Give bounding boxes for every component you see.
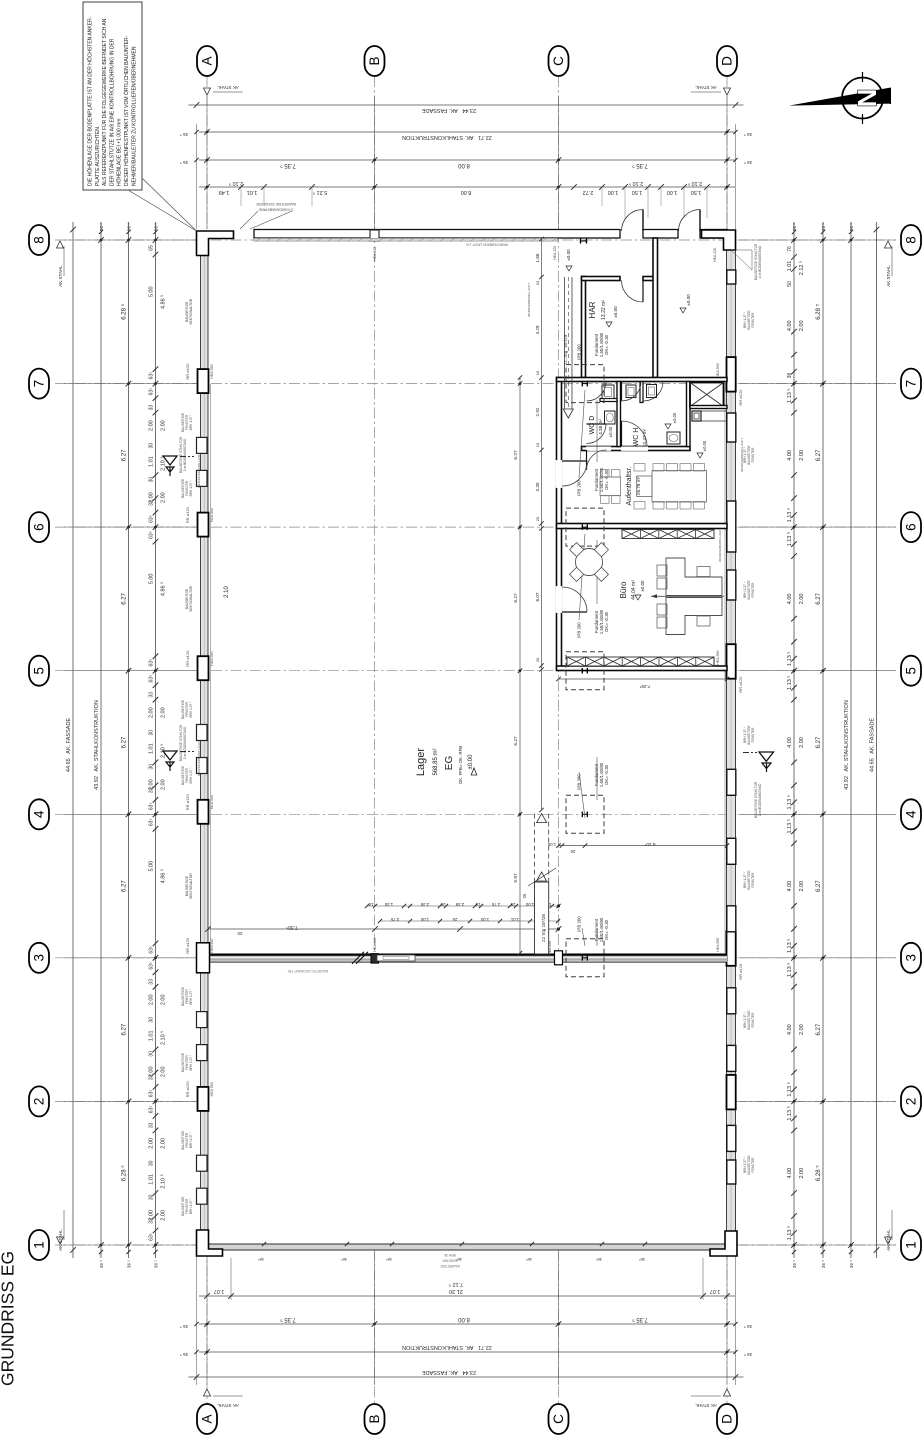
svg-text:22.71 AK. STAHLKONSTRUKTION: 22.71 AK. STAHLKONSTRUKTION xyxy=(402,1344,492,1350)
svg-text:6.27: 6.27 xyxy=(816,449,822,461)
left wall inner leaf line xyxy=(210,384,212,953)
svg-text:2-m BODENABSTAND: 2-m BODENABSTAND xyxy=(183,726,187,759)
svg-text:HEA 550: HEA 550 xyxy=(210,364,214,378)
svg-text:FENSTER: FENSTER xyxy=(751,1157,755,1173)
svg-text:63⁵: 63⁵ xyxy=(149,515,155,523)
svg-text:4.86 ⁵: 4.86 ⁵ xyxy=(160,582,167,597)
svg-text:±0.00: ±0.00 xyxy=(608,426,613,437)
svg-text:4.00: 4.00 xyxy=(787,320,793,331)
svg-text:N: N xyxy=(852,89,882,108)
svg-text:2.00: 2.00 xyxy=(799,881,805,892)
svg-text:33: 33 xyxy=(149,405,155,411)
interior dim line 6.10 y845 xyxy=(559,845,728,847)
svg-text:4.29: 4.29 xyxy=(535,325,540,334)
svg-text:36 ⁵: 36 ⁵ xyxy=(744,160,752,165)
right dim extension lines xyxy=(740,239,896,241)
svg-text:2.00: 2.00 xyxy=(799,594,805,605)
svg-text:2.10 ⁵: 2.10 ⁵ xyxy=(160,1174,167,1189)
svg-text:1.13 ⁵: 1.13 ⁵ xyxy=(786,388,793,403)
svg-text:1.01: 1.01 xyxy=(787,261,793,272)
svg-text:2.75: 2.75 xyxy=(390,917,399,922)
svg-text:36 ⁵: 36 ⁵ xyxy=(744,1324,752,1329)
axis bubble 4 left xyxy=(29,799,49,829)
right wall inner leaf line xyxy=(724,384,726,953)
Buero desk chairs xyxy=(657,565,667,576)
svg-text:Aufenthaltsr.: Aufenthaltsr. xyxy=(626,466,633,505)
door arc Aufenthalt xyxy=(562,460,587,462)
svg-text:BRH 1.37 ⁵: BRH 1.37 ⁵ xyxy=(189,1054,193,1071)
bottom dim line 22.71 AK STAHLKONSTRUKTION xyxy=(199,1351,735,1353)
AK.STAHL flag left-bottom xyxy=(57,1237,64,1244)
grid axis 8 (horizontal dash-dot) xyxy=(55,239,896,241)
svg-text:2-m BODENABSTAND: 2-m BODENABSTAND xyxy=(183,438,187,471)
svg-text:AK STAHL: AK STAHL xyxy=(695,1403,717,1408)
Aufenthalt small table with chairs xyxy=(600,477,621,496)
axis bubble 8 left xyxy=(29,225,49,255)
Buero desk group lower xyxy=(666,598,722,635)
svg-text:GRUNDRISS EG: GRUNDRISS EG xyxy=(0,1251,18,1386)
svg-text:1.01: 1.01 xyxy=(510,917,519,922)
utility sink below shaft xyxy=(692,411,701,421)
svg-text:RR ø120: RR ø120 xyxy=(185,1081,190,1098)
svg-text:4.00: 4.00 xyxy=(787,1168,793,1179)
svg-text:BRH 1.37 ⁵: BRH 1.37 ⁵ xyxy=(189,414,193,431)
door arc WC H cabin1 xyxy=(621,382,623,402)
top dim line 4 fine xyxy=(199,186,735,188)
svg-text:30: 30 xyxy=(149,1017,155,1023)
svg-text:1.01: 1.01 xyxy=(149,1030,155,1041)
AK STAHL flag bottom-left xyxy=(204,1389,211,1396)
axis bubble A bottom xyxy=(197,1404,217,1434)
svg-text:OK= -0.30: OK= -0.30 xyxy=(604,919,609,940)
corner column top-right xyxy=(702,230,736,250)
door arc Buero xyxy=(562,611,587,613)
svg-text:HEA 220: HEA 220 xyxy=(713,248,717,262)
wall axis6 Aufenthalt/Buero xyxy=(557,524,728,529)
axis bubble 5 left xyxy=(29,656,49,686)
svg-text:SEKTIONALTOR: SEKTIONALTOR xyxy=(189,298,193,324)
svg-text:20: 20 xyxy=(237,931,243,936)
svg-text:±0.00: ±0.00 xyxy=(613,306,618,318)
svg-text:23.44 AK. FASSADE: 23.44 AK. FASSADE xyxy=(422,107,476,113)
svg-text:63⁵: 63⁵ xyxy=(149,388,155,396)
AK STAHL flag bottom-right xyxy=(724,1389,731,1396)
shaft box with X xyxy=(690,383,724,407)
svg-text:43.92 AK. STAHLKONSTRUKTION: 43.92 AK. STAHLKONSTRUKTION xyxy=(844,700,850,790)
svg-text:4.38 m²: 4.38 m² xyxy=(598,419,603,435)
svg-text:1.01: 1.01 xyxy=(149,743,155,754)
svg-text:HEA 550: HEA 550 xyxy=(716,651,720,665)
svg-text:36 ⁵: 36 ⁵ xyxy=(180,132,188,137)
svg-text:SEKTIONALTOR: SEKTIONALTOR xyxy=(189,585,193,611)
note box leader line xyxy=(142,178,197,231)
svg-text:8.00: 8.00 xyxy=(458,162,470,168)
svg-text:EG: EG xyxy=(444,756,455,771)
svg-text:4.00: 4.00 xyxy=(787,881,793,892)
svg-text:FENSTER: FENSTER xyxy=(751,1012,755,1028)
door arc HAR xyxy=(642,281,644,303)
door arc WC D lower xyxy=(587,423,607,425)
svg-text:1.49: 1.49 xyxy=(219,189,230,195)
svg-text:FENSTER: FENSTER xyxy=(751,582,755,598)
right wall windows xyxy=(727,270,736,284)
grid axis 5 (horizontal dash-dot) xyxy=(55,670,896,672)
svg-text:1.00: 1.00 xyxy=(480,917,489,922)
stair flight lower (22 Stg) to wall 3 xyxy=(534,814,536,882)
grid axis 1 (horizontal dash-dot) xyxy=(55,1244,896,1246)
svg-text:30: 30 xyxy=(149,730,155,736)
svg-text:2-m BODENABSTAND: 2-m BODENABSTAND xyxy=(258,208,293,212)
top dim line 22.71 AK STAHLKONSTRUKTION xyxy=(199,131,735,133)
foundation squares at C+26 rows 7,6,5,4,3 xyxy=(566,365,604,403)
svg-text:2.00: 2.00 xyxy=(149,1138,155,1149)
WC D washbasin xyxy=(602,385,614,399)
svg-text:2.00: 2.00 xyxy=(161,707,167,718)
svg-text:1.00: 1.00 xyxy=(525,902,534,907)
WC bottom wall y447 xyxy=(582,447,691,451)
svg-text:HAR: HAR xyxy=(588,301,597,318)
svg-text:C: C xyxy=(551,1414,566,1424)
svg-text:36 ⁵: 36 ⁵ xyxy=(180,1324,188,1329)
svg-text:2.72: 2.72 xyxy=(583,189,594,195)
svg-text:BRH 1.37 ⁵: BRH 1.37 ⁵ xyxy=(189,1198,193,1215)
svg-text:WANDVERBAND-LÄUFT: WANDVERBAND-LÄUFT xyxy=(718,528,722,562)
svg-text:WANDVERBAND LÄUFT 2-m: WANDVERBAND LÄUFT 2-m xyxy=(465,243,508,247)
top dim extension lines xyxy=(206,96,208,229)
corner column bottom-right xyxy=(710,1231,737,1256)
svg-text:RR ø120: RR ø120 xyxy=(185,650,190,667)
WC H washbasin 1 xyxy=(626,385,636,398)
svg-text:2.38: 2.38 xyxy=(420,902,429,907)
svg-text:6.10⁷: 6.10⁷ xyxy=(644,841,655,847)
grid axis A (vertical dash-dot) xyxy=(206,76,208,1404)
svg-text:1.01: 1.01 xyxy=(149,1174,155,1185)
svg-text:63⁵: 63⁵ xyxy=(149,818,155,826)
svg-text:Lager: Lager xyxy=(415,748,427,776)
office wall HAR left x581 xyxy=(582,277,586,378)
corner column bottom-left xyxy=(197,1230,223,1256)
svg-text:6.27: 6.27 xyxy=(122,880,128,892)
svg-text:8.00: 8.00 xyxy=(461,189,472,195)
WC H washbasin 2 xyxy=(647,385,657,398)
svg-text:D: D xyxy=(720,1414,735,1424)
svg-text:ALS REFERENZPUNKT FÜR DIE FOLG: ALS REFERENZPUNKT FÜR DIE FOLGEGEWERKE B… xyxy=(101,18,108,186)
svg-text:1.13 ⁵: 1.13 ⁵ xyxy=(786,675,793,690)
svg-text:BRANDVERBAND-LÄUFT: BRANDVERBAND-LÄUFT xyxy=(197,452,201,488)
axis bubble B top xyxy=(365,46,385,76)
svg-text:1: 1 xyxy=(904,1241,919,1249)
datum level symbol left bay 7-6 xyxy=(163,456,177,465)
svg-text:3.30: 3.30 xyxy=(535,482,540,491)
svg-text:DIE HÖHENLAGE DER BODENPLATTE: DIE HÖHENLAGE DER BODENPLATTE IST AN DER… xyxy=(87,16,94,186)
svg-text:36 ⁵: 36 ⁵ xyxy=(127,1260,132,1268)
svg-text:1.01: 1.01 xyxy=(149,456,155,467)
svg-text:63⁵: 63⁵ xyxy=(149,1233,155,1241)
AK.STAHL flag right-top xyxy=(885,241,892,248)
svg-text:±0.00: ±0.00 xyxy=(672,412,677,423)
axis bubble C top xyxy=(549,46,569,76)
svg-text:OK= -0.30: OK= -0.30 xyxy=(604,469,609,490)
grid axis 4 (horizontal dash-dot) xyxy=(55,813,896,815)
svg-text:2.75: 2.75 xyxy=(491,902,500,907)
axis bubble D top xyxy=(717,46,737,76)
svg-text:±0.00: ±0.00 xyxy=(686,294,691,306)
bottom dim extension lines xyxy=(196,1252,198,1385)
door arc WC D top xyxy=(587,381,607,383)
svg-text:6.27: 6.27 xyxy=(816,880,822,892)
wall 3 column at C xyxy=(555,951,563,965)
svg-text:AK.STAHL: AK.STAHL xyxy=(886,265,891,287)
svg-text:6.28 ⁵: 6.28 ⁵ xyxy=(121,303,128,319)
svg-text:HEA 220: HEA 220 xyxy=(553,246,557,260)
svg-text:20: 20 xyxy=(570,849,575,854)
svg-text:OK= -0.30: OK= -0.30 xyxy=(604,611,609,632)
svg-text:2.39: 2.39 xyxy=(455,902,464,907)
svg-text:7.25⁵: 7.25⁵ xyxy=(639,684,650,689)
svg-text:65: 65 xyxy=(149,245,155,251)
svg-text:25: 25 xyxy=(510,902,515,907)
wall 3 break symbol xyxy=(352,952,364,964)
axis bubble 1 left xyxy=(29,1230,49,1260)
svg-text:1.13 ⁵: 1.13 ⁵ xyxy=(786,1106,793,1121)
svg-text:HEA 550: HEA 550 xyxy=(716,363,720,377)
svg-text:36 ⁵: 36 ⁵ xyxy=(744,1352,752,1357)
svg-text:2.00: 2.00 xyxy=(161,1138,167,1149)
svg-text:36 ⁵: 36 ⁵ xyxy=(744,132,752,137)
left dim line 4 fine chain xyxy=(155,222,157,1258)
right fine dim chain xyxy=(793,222,795,1258)
AK.STAHL flag right-bottom xyxy=(885,1237,892,1244)
svg-text:BRH 1.37 ⁵: BRH 1.37 ⁵ xyxy=(189,767,193,784)
Buero bottom wall y666 xyxy=(557,666,728,671)
svg-text:HEA 220: HEA 220 xyxy=(373,938,377,952)
svg-text:43.92 AK. STAHLKONSTRUKTION: 43.92 AK. STAHLKONSTRUKTION xyxy=(94,700,100,790)
svg-text:26.78 m²: 26.78 m² xyxy=(636,476,641,495)
svg-text:WANDVERBAND-LÄUFT: WANDVERBAND-LÄUFT xyxy=(740,438,744,472)
svg-text:FENSTER: FENSTER xyxy=(442,1259,458,1263)
bottom wall 36.5 tick flags xyxy=(262,1242,266,1246)
svg-text:WANDVERBAND-LÄUFT: WANDVERBAND-LÄUFT xyxy=(527,283,531,317)
svg-text:38: 38 xyxy=(787,373,793,379)
top wall door leaf+arc left pair xyxy=(642,210,644,232)
svg-text:2.12 ⁵: 2.12 ⁵ xyxy=(798,261,805,276)
left wall windows xyxy=(197,437,208,453)
svg-text:36⁵: 36⁵ xyxy=(639,1257,645,1262)
svg-text:1.13 ⁵: 1.13 ⁵ xyxy=(786,1226,793,1241)
WC H cabin divider x640 xyxy=(640,382,643,403)
svg-text:±0.00: ±0.00 xyxy=(468,754,474,770)
svg-text:63⁵: 63⁵ xyxy=(149,531,155,539)
svg-text:OK= -0.30: OK= -0.30 xyxy=(604,334,609,355)
svg-text:FENSTER: FENSTER xyxy=(751,312,755,328)
svg-text:AK STAHL: AK STAHL xyxy=(695,85,717,90)
svg-text:AK STAHL: AK STAHL xyxy=(217,1403,239,1408)
svg-text:22.71 AK. STAHLKONSTRUKTION: 22.71 AK. STAHLKONSTRUKTION xyxy=(402,134,492,140)
svg-text:WC H: WC H xyxy=(633,428,640,447)
svg-text:2.00: 2.00 xyxy=(799,320,805,331)
svg-text:8: 8 xyxy=(904,236,919,244)
svg-text:2.00: 2.00 xyxy=(799,737,805,748)
svg-text:6.28 ⁵: 6.28 ⁵ xyxy=(815,303,822,319)
svg-text:1.01: 1.01 xyxy=(247,189,258,195)
svg-text:2: 2 xyxy=(32,1098,47,1106)
svg-text:1.00: 1.00 xyxy=(420,917,429,922)
note box top-left xyxy=(83,2,142,190)
svg-text:8.00: 8.00 xyxy=(458,1316,470,1322)
svg-text:PLATTE AUSZURICHTEN.: PLATTE AUSZURICHTEN. xyxy=(95,126,101,186)
axis bubble 3 right xyxy=(901,943,921,973)
left exterior wall xyxy=(201,230,209,1251)
svg-text:10: 10 xyxy=(535,442,540,447)
svg-text:10: 10 xyxy=(368,902,373,907)
interior dim chain x520 xyxy=(519,378,521,954)
axis bubble A top xyxy=(197,46,217,76)
svg-text:30: 30 xyxy=(149,1160,155,1166)
svg-text:1.13 ⁵: 1.13 ⁵ xyxy=(786,651,793,666)
dim line 7.30 above wall 3 xyxy=(208,928,559,930)
axis bubble 4 right xyxy=(901,799,921,829)
axis bubble 8 right xyxy=(901,225,921,255)
svg-text:30: 30 xyxy=(149,443,155,449)
Buero desk group upper xyxy=(666,558,722,596)
svg-text:4.86 ⁵: 4.86 ⁵ xyxy=(160,869,167,884)
svg-text:7.35 ⁵: 7.35 ⁵ xyxy=(632,162,648,169)
corner column top-left xyxy=(197,231,234,256)
svg-text:30: 30 xyxy=(149,477,155,483)
svg-text:IPB 200: IPB 200 xyxy=(577,344,582,360)
svg-text:DIESER HÖHENFESTPUNKT IST VOM: DIESER HÖHENFESTPUNKT IST VOM ÖRTLICHEN … xyxy=(123,35,130,186)
svg-text:1.05: 1.05 xyxy=(547,842,556,847)
office wall at axis C lower xyxy=(557,378,562,670)
top dim line 23.44 AK FASSADE xyxy=(189,104,744,106)
svg-text:568.85 m²: 568.85 m² xyxy=(433,748,439,775)
AK STAHL flag top-left xyxy=(204,88,211,95)
svg-text:7.35 ⁵: 7.35 ⁵ xyxy=(280,162,296,169)
axis bubble 1 right xyxy=(901,1230,921,1260)
svg-text:2.00: 2.00 xyxy=(161,1066,167,1077)
svg-text:3: 3 xyxy=(904,954,919,962)
door arc WC H cabin2 xyxy=(644,381,664,383)
svg-text:36 ⁵: 36 ⁵ xyxy=(821,1260,826,1268)
svg-text:36 ⁵: 36 ⁵ xyxy=(849,223,854,231)
glazing band below axis6 wall xyxy=(622,530,714,539)
svg-text:44.65 AK. FASSADE: 44.65 AK. FASSADE xyxy=(66,718,72,772)
svg-text:BRH 1.37 ⁵: BRH 1.37 ⁵ xyxy=(189,701,193,718)
wall HAR right x653 xyxy=(653,238,658,378)
svg-text:B: B xyxy=(367,56,382,65)
WC D divider stub xyxy=(600,399,617,402)
svg-text:3: 3 xyxy=(32,954,47,962)
svg-text:50: 50 xyxy=(787,281,793,287)
svg-text:6.27: 6.27 xyxy=(122,592,128,604)
svg-text:63⁵: 63⁵ xyxy=(149,1090,155,1098)
svg-text:IPB 200: IPB 200 xyxy=(577,622,582,638)
svg-text:36 ⁵: 36 ⁵ xyxy=(792,1260,797,1268)
svg-text:7.35 ⁵: 7.35 ⁵ xyxy=(632,1316,648,1323)
grid axis 3 (horizontal dash-dot) xyxy=(55,957,896,959)
svg-text:4.00: 4.00 xyxy=(787,594,793,605)
svg-text:HEA 550: HEA 550 xyxy=(210,1082,214,1096)
svg-text:BRH 38: BRH 38 xyxy=(444,1253,455,1257)
svg-text:22 Stg 18⁵/26: 22 Stg 18⁵/26 xyxy=(541,914,546,942)
svg-text:BAUSEITIG GEDÄMMT F90: BAUSEITIG GEDÄMMT F90 xyxy=(288,969,329,973)
axis bubble D bottom xyxy=(717,1404,737,1434)
svg-text:HEA 550: HEA 550 xyxy=(716,938,720,952)
fine dims cluster above wall 3 xyxy=(367,905,560,907)
svg-text:AK.STAHL: AK.STAHL xyxy=(58,1229,63,1251)
svg-text:DER STAHLSTÜTZE IN A/8 EINE KO: DER STAHLSTÜTZE IN A/8 EINE KONTROLLBOHR… xyxy=(108,38,115,186)
svg-text:4: 4 xyxy=(32,810,47,818)
svg-text:RR ø120: RR ø120 xyxy=(185,363,190,380)
svg-text:4.86 ⁵: 4.86 ⁵ xyxy=(160,295,167,310)
H mark in top wall at HAR wall xyxy=(580,239,582,244)
svg-text:2.10 ⁵: 2.10 ⁵ xyxy=(629,180,644,187)
svg-text:36⁵: 36⁵ xyxy=(456,1257,462,1262)
svg-text:63⁵: 63⁵ xyxy=(149,802,155,810)
svg-text:36⁵: 36⁵ xyxy=(258,1257,264,1262)
svg-text:10: 10 xyxy=(475,902,480,907)
door arc WC D exit to Aufenthalt xyxy=(586,450,588,470)
interior dim chain x541 xyxy=(541,239,543,810)
svg-text:2-m BODENABSTAND: 2-m BODENABSTAND xyxy=(758,245,762,278)
AK STAHL flag top-right xyxy=(724,88,731,95)
svg-text:1.50: 1.50 xyxy=(691,189,702,195)
svg-text:2.10: 2.10 xyxy=(224,586,230,598)
Aufenthalt chairs bottom row xyxy=(634,502,645,510)
svg-text:6.28 ⁵: 6.28 ⁵ xyxy=(815,1165,822,1181)
office horizontal wall y377 xyxy=(557,378,728,382)
svg-text:25: 25 xyxy=(452,917,457,922)
right exterior wall xyxy=(727,230,736,1251)
svg-text:6: 6 xyxy=(904,523,919,531)
round table with 4 chairs in Buero xyxy=(576,549,603,576)
svg-text:RR ø120: RR ø120 xyxy=(738,676,743,693)
svg-text:7.30⁵: 7.30⁵ xyxy=(286,924,298,930)
svg-text:1.13 ⁵: 1.13 ⁵ xyxy=(786,819,793,834)
svg-text:2.00: 2.00 xyxy=(799,450,805,461)
svg-text:1: 1 xyxy=(32,1241,47,1249)
svg-text:2.00: 2.00 xyxy=(161,779,167,790)
svg-text:BRH 1.37 ⁵: BRH 1.37 ⁵ xyxy=(189,480,193,497)
svg-text:7.35 ⁵: 7.35 ⁵ xyxy=(280,1316,296,1323)
svg-text:RR ø120: RR ø120 xyxy=(738,963,743,980)
svg-text:44.65 AK. FASSADE: 44.65 AK. FASSADE xyxy=(870,718,876,772)
svg-text:1.30: 1.30 xyxy=(384,902,393,907)
top wall door leaf+arc right pair xyxy=(699,210,701,232)
svg-text:2.10 ⁵: 2.10 ⁵ xyxy=(229,180,244,187)
AK.STAHL flag left-top xyxy=(57,241,64,248)
svg-text:SEKTIONALTOR: SEKTIONALTOR xyxy=(189,873,193,899)
svg-text:B: B xyxy=(367,1414,382,1423)
svg-text:1.13 ⁵: 1.13 ⁵ xyxy=(786,795,793,810)
svg-text:5.00: 5.00 xyxy=(149,286,155,297)
svg-text:6: 6 xyxy=(32,523,47,531)
svg-text:36⁵: 36⁵ xyxy=(386,1257,392,1262)
svg-text:4.00: 4.00 xyxy=(787,1024,793,1035)
svg-text:6.28 ⁵: 6.28 ⁵ xyxy=(121,1165,128,1181)
svg-text:1.13 ⁵: 1.13 ⁵ xyxy=(786,1082,793,1097)
svg-text:4: 4 xyxy=(904,810,919,818)
svg-text:36 ⁵: 36 ⁵ xyxy=(99,1260,104,1268)
svg-text:A: A xyxy=(200,1414,215,1423)
svg-text:26: 26 xyxy=(440,902,445,907)
svg-text:1.13 ⁵: 1.13 ⁵ xyxy=(786,508,793,523)
svg-text:36 ⁵: 36 ⁵ xyxy=(154,223,159,231)
top exterior wall xyxy=(197,230,736,239)
svg-text:5.97: 5.97 xyxy=(513,873,519,883)
svg-text:63⁵: 63⁵ xyxy=(149,372,155,380)
axis bubble 7 right xyxy=(901,369,921,399)
